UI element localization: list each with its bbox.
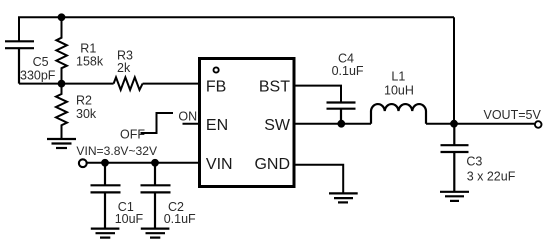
wire FB row left (C5 to junction to R3) [19, 83, 114, 85]
resistor R3 [114, 77, 143, 90]
VOUT output terminal [535, 121, 542, 128]
wire BST to C4 [294, 86, 341, 103]
VIN input terminal [79, 159, 87, 167]
wire GND pin to ground [294, 165, 343, 194]
svg-text:R1: R1 [80, 41, 96, 55]
svg-text:10uF: 10uF [115, 212, 144, 226]
wire right vertical (top rail down to VOUT row) [453, 17, 455, 123]
node junction VOUT/C3/top rail [450, 120, 458, 128]
svg-text:EN: EN [206, 117, 228, 134]
ground below R2 [47, 139, 76, 148]
svg-text:BST: BST [259, 79, 290, 96]
svg-text:R2: R2 [76, 94, 92, 108]
wire SW row to inductor [294, 123, 371, 125]
node junction FB row (C5/R1/R2/R3) [58, 80, 66, 88]
capacitor C3 [441, 124, 469, 192]
svg-text:VOUT=5V: VOUT=5V [484, 108, 542, 122]
ground below C3 [440, 192, 469, 201]
capacitor C1 [91, 163, 121, 229]
svg-text:SW: SW [264, 117, 291, 134]
wire VIN row [87, 162, 200, 164]
switch ON/OFF lever [141, 113, 174, 133]
capacitor C5 [5, 41, 34, 83]
capacitor C4 [327, 103, 356, 124]
node junction top rail / R1 [58, 13, 66, 21]
svg-text:L1: L1 [391, 69, 405, 83]
wire FB row right (R3 to IC pin FB) [143, 83, 200, 85]
inductor L1 [371, 104, 426, 124]
node junction VIN/C1 [101, 159, 109, 167]
ground below C1 [91, 229, 120, 238]
wire EN stub [183, 123, 200, 125]
capacitor C2 [141, 163, 171, 229]
node junction SW/C4 [337, 120, 345, 128]
wire top rail (VOUT feedback net) [19, 17, 454, 41]
svg-text:158k: 158k [76, 55, 104, 69]
svg-text:FB: FB [206, 79, 226, 96]
resistor R2 [56, 84, 67, 139]
resistor R1 [56, 17, 67, 83]
svg-text:VIN=3.8V~32V: VIN=3.8V~32V [76, 144, 158, 158]
svg-text:VIN: VIN [206, 156, 233, 173]
svg-text:C5: C5 [33, 55, 49, 69]
svg-text:330pF: 330pF [20, 69, 56, 83]
ground below C2 [141, 229, 170, 238]
IC U1 body [200, 59, 295, 187]
wire L1 to VOUT terminal [426, 123, 534, 125]
svg-text:OFF: OFF [120, 127, 145, 141]
svg-text:10uH: 10uH [384, 83, 414, 97]
svg-text:30k: 30k [76, 107, 97, 121]
svg-text:0.1uF: 0.1uF [332, 64, 364, 78]
svg-text:GND: GND [254, 156, 290, 173]
svg-text:3 x 22uF: 3 x 22uF [467, 170, 516, 184]
ground below IC GND [329, 193, 358, 202]
svg-text:0.1uF: 0.1uF [164, 212, 196, 226]
node junction VIN/C2 [151, 159, 159, 167]
pin 1 indicator circle [214, 67, 219, 72]
svg-text:ON: ON [178, 109, 197, 123]
svg-text:2k: 2k [117, 61, 131, 75]
svg-text:C3: C3 [466, 155, 482, 169]
